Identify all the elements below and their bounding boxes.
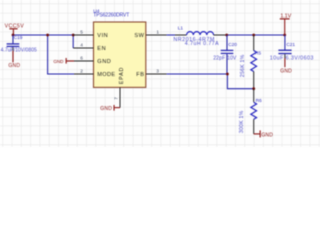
svg-text:EN: EN (97, 46, 106, 52)
pin 4 EN (73, 43, 106, 52)
svg-text:TPS62260DRVT: TPS62260DRVT (93, 13, 129, 19)
pin 7 EPAD (114, 67, 125, 108)
wire L1 to 1.1V rail (227, 34, 285, 36)
node junction FB/C20 (226, 73, 229, 76)
node junction VCC5V/C19 (12, 34, 15, 37)
inductor L1 (173, 25, 226, 47)
svg-text:GND: GND (8, 63, 20, 69)
wire EN drop (72, 35, 74, 48)
node junction R5 top (252, 34, 255, 37)
ground at R6 (254, 130, 273, 138)
svg-text:10uF 6.3V/0603: 10uF 6.3V/0603 (270, 56, 314, 62)
IC U4 TPS62260DRVT body (93, 8, 146, 87)
svg-text:C20: C20 (228, 42, 237, 48)
svg-text:R5: R5 (255, 51, 261, 57)
svg-text:300K 1%: 300K 1% (239, 111, 245, 134)
pin 5 VIN (73, 30, 108, 39)
svg-text:4: 4 (80, 43, 83, 49)
node junction R5/R6 (252, 87, 255, 90)
capacitor C20 (213, 35, 237, 74)
wire VCC5V rail (13, 34, 73, 36)
ground at EPAD (100, 105, 120, 112)
svg-text:256K 1%: 256K 1% (240, 55, 246, 78)
svg-text:C21: C21 (286, 42, 295, 48)
ground at pin 6 (53, 58, 74, 64)
svg-text:SW: SW (134, 33, 144, 39)
pin 1 SW (134, 30, 166, 39)
svg-text:VIN: VIN (97, 33, 108, 39)
node junction C21/1.1V (283, 34, 286, 37)
svg-text:EPAD: EPAD (119, 67, 125, 84)
svg-text:5: 5 (80, 30, 83, 36)
svg-text:4.7uH 0.77A: 4.7uH 0.77A (185, 41, 219, 47)
svg-text:22pF 10V: 22pF 10V (213, 55, 237, 61)
node junction EN (72, 34, 75, 37)
capacitor C19 (1, 35, 37, 53)
node junction MODE (46, 34, 49, 37)
svg-text:GND: GND (280, 69, 292, 75)
pin 6 GND (74, 56, 111, 65)
capacitor C21 (270, 35, 314, 62)
svg-text:GND: GND (100, 106, 112, 112)
svg-text:L1: L1 (178, 25, 184, 31)
resistor R6 (239, 89, 262, 134)
pin 3 FB (136, 69, 166, 78)
ground below C21 (280, 58, 292, 75)
svg-text:2: 2 (80, 69, 83, 75)
power VCC5V (5, 23, 25, 35)
wire SW to L1 (167, 34, 175, 36)
svg-text:3: 3 (156, 69, 159, 75)
svg-text:GND: GND (53, 59, 64, 64)
wire MODE drop (48, 35, 74, 74)
svg-text:GND: GND (261, 133, 273, 139)
svg-text:6: 6 (80, 56, 83, 62)
wire FB net (167, 74, 254, 89)
power 1.1V (280, 13, 292, 35)
svg-text:4.7uF/10V/0805: 4.7uF/10V/0805 (1, 47, 37, 53)
resistor R5 (240, 35, 262, 89)
svg-text:1: 1 (156, 30, 159, 36)
ground below C19 (8, 51, 20, 69)
node junction C20 top (225, 34, 228, 37)
svg-text:R6: R6 (256, 98, 262, 104)
svg-text:FB: FB (136, 72, 144, 78)
svg-text:MODE: MODE (97, 72, 115, 78)
svg-text:C19: C19 (14, 35, 23, 41)
svg-text:GND: GND (97, 59, 111, 65)
pin 2 MODE (74, 69, 115, 78)
